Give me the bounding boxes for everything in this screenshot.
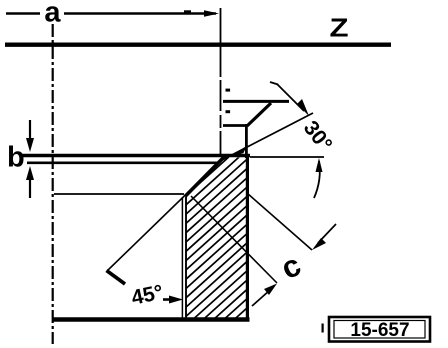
svg-text:15-657: 15-657 — [350, 320, 409, 341]
extension line at right end of a — [220, 8, 222, 156]
extension line A of c dimension — [247, 193, 312, 250]
c arrow upper (points to line A) — [312, 224, 336, 250]
svg-text:b: b — [7, 142, 25, 174]
lower b line — [27, 162, 218, 165]
part bottom edge — [53, 317, 250, 321]
thin horizontal line at counterbore depth — [54, 193, 184, 195]
mating part profile vertical — [245, 124, 248, 158]
stray scan dashes right of extension line — [226, 89, 231, 92]
c arrow lower (points to line B) — [252, 284, 277, 307]
30deg angled leg — [222, 113, 313, 160]
30deg horizontal leg — [250, 156, 324, 158]
figure number box — [329, 317, 430, 342]
mating part profile lower line — [223, 124, 247, 127]
part right edge — [246, 154, 249, 322]
45deg arrow to part edge — [163, 296, 183, 304]
b upper arrow (points down) — [26, 120, 34, 152]
arrowhead on 30deg leg — [231, 146, 247, 157]
tick on dimension line a — [184, 10, 191, 13]
svg-text:Z: Z — [329, 14, 348, 43]
reference plane line Z — [5, 43, 391, 47]
b lower arrow (points up) — [26, 166, 34, 198]
arrowhead of dimension a (points right) — [204, 10, 219, 17]
tick left of figure box — [322, 324, 324, 333]
centerline (dash-dot) — [52, 24, 54, 344]
label Z — [329, 14, 348, 43]
dimension line a — [6, 12, 216, 14]
chamfer edge 45deg — [185, 157, 225, 197]
45deg construction line to vertex — [107, 157, 225, 272]
45deg vertex leader stroke — [107, 271, 126, 285]
part left edge — [185, 197, 187, 318]
mating part profile diagonal — [247, 103, 271, 126]
upper b line / part top surface — [22, 154, 250, 157]
part left edge outer thin line — [181, 197, 183, 318]
mating part profile top line — [223, 100, 289, 103]
30deg arc arrow upper (points to angled leg) — [270, 82, 309, 116]
30deg arc arrow lower (points up to horizontal leg) — [314, 158, 323, 198]
hatching of cross-section — [150, 74, 290, 348]
extension line B of c dimension — [191, 196, 277, 283]
